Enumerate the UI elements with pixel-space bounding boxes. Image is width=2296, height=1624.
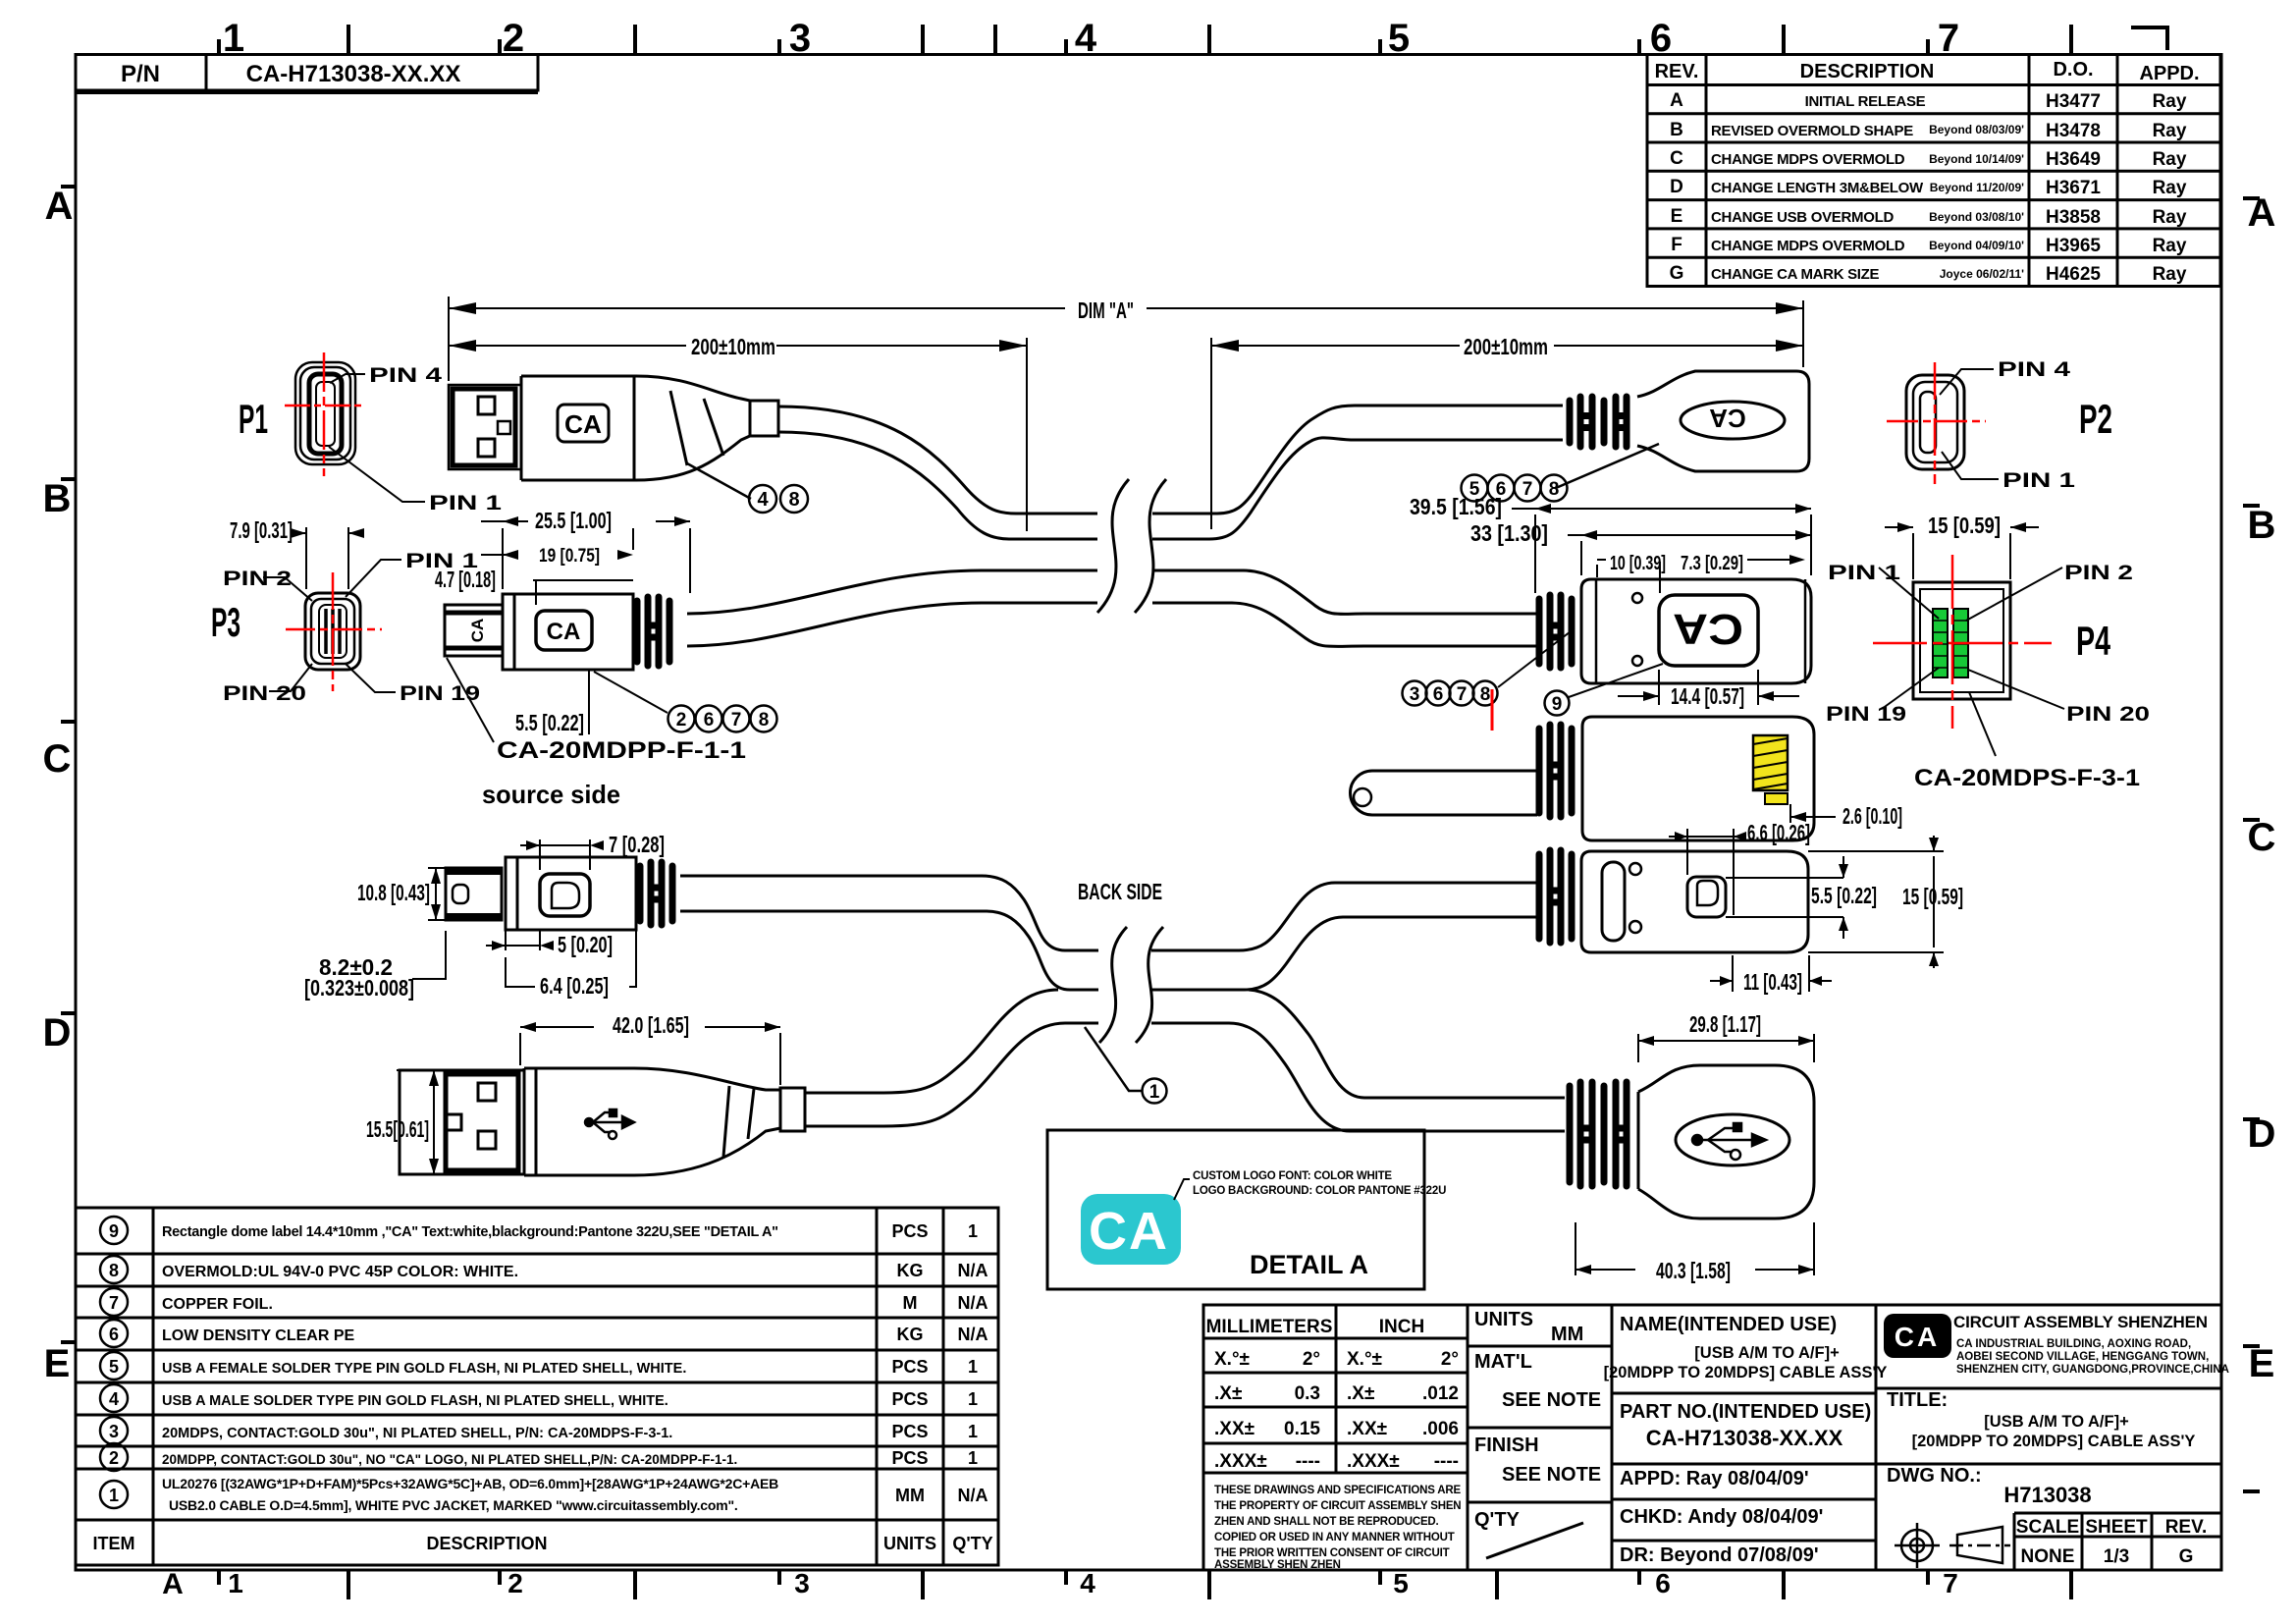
svg-text:7.3 [0.29]: 7.3 [0.29] xyxy=(1681,553,1743,574)
svg-text:4.7 [0.18]: 4.7 [0.18] xyxy=(435,567,496,592)
svg-text:Beyond 04/09/10': Beyond 04/09/10' xyxy=(1929,239,2024,252)
svg-text:N/A: N/A xyxy=(958,1293,988,1313)
svg-text:6: 6 xyxy=(1655,1568,1671,1598)
svg-text:DESCRIPTION: DESCRIPTION xyxy=(426,1534,547,1553)
svg-text:5.5 [0.22]: 5.5 [0.22] xyxy=(1811,883,1877,908)
svg-text:CA: CA xyxy=(547,619,581,645)
svg-text:15.5[0.61]: 15.5[0.61] xyxy=(366,1116,429,1142)
svg-text:1: 1 xyxy=(968,1448,978,1468)
svg-text:[0.323±0.008]: [0.323±0.008] xyxy=(304,975,414,1001)
svg-text:SEE NOTE: SEE NOTE xyxy=(1502,1389,1601,1411)
svg-text:PIN 1: PIN 1 xyxy=(2002,469,2075,492)
svg-text:SCALE: SCALE xyxy=(2016,1517,2079,1538)
svg-text:SHEET: SHEET xyxy=(2085,1517,2148,1538)
svg-text:7: 7 xyxy=(731,710,742,731)
svg-text:.XXX±: .XXX± xyxy=(1347,1451,1400,1472)
svg-text:2°: 2° xyxy=(1441,1349,1459,1370)
svg-text:PIN 4: PIN 4 xyxy=(369,364,442,387)
svg-text:N/A: N/A xyxy=(958,1325,988,1344)
svg-text:PIN 2: PIN 2 xyxy=(2064,562,2133,584)
svg-text:ZHEN AND SHALL NOT BE REPRODUC: ZHEN AND SHALL NOT BE REPRODUCED. xyxy=(1214,1516,1439,1528)
svg-text:Beyond 11/20/09': Beyond 11/20/09' xyxy=(1930,181,2024,194)
svg-text:INITIAL RELEASE: INITIAL RELEASE xyxy=(1805,93,1926,110)
svg-text:A: A xyxy=(2248,191,2276,235)
svg-text:COPIED OR USED IN ANY MANNER W: COPIED OR USED IN ANY MANNER WITHOUT xyxy=(1214,1532,1455,1543)
svg-text:2: 2 xyxy=(676,710,687,731)
svg-text:.X±: .X± xyxy=(1347,1383,1374,1404)
svg-text:F: F xyxy=(1671,235,1682,255)
svg-text:6: 6 xyxy=(704,710,715,731)
svg-text:11 [0.43]: 11 [0.43] xyxy=(1743,969,1802,995)
svg-text:4: 4 xyxy=(109,1389,119,1409)
svg-text:2°: 2° xyxy=(1303,1349,1320,1370)
svg-text:H3478: H3478 xyxy=(2046,121,2101,141)
svg-text:COPPER FOIL.: COPPER FOIL. xyxy=(162,1296,273,1313)
svg-text:Ray: Ray xyxy=(2153,149,2187,170)
svg-text:PIN 19: PIN 19 xyxy=(400,682,480,705)
svg-text:----: ---- xyxy=(1296,1451,1320,1472)
svg-text:CA-H713038-XX.XX: CA-H713038-XX.XX xyxy=(246,61,461,87)
svg-text:10 [0.39]: 10 [0.39] xyxy=(1610,553,1666,574)
svg-text:CHANGE MDPS OVERMOLD: CHANGE MDPS OVERMOLD xyxy=(1711,238,1905,254)
svg-text:1: 1 xyxy=(109,1486,119,1505)
svg-text:UNITS: UNITS xyxy=(883,1534,936,1553)
svg-text:CHKD: Andy 08/04/09': CHKD: Andy 08/04/09' xyxy=(1620,1506,1823,1528)
svg-text:UL20276 [(32AWG*1P+D+FAM)*5Pcs: UL20276 [(32AWG*1P+D+FAM)*5Pcs+32AWG*5C]… xyxy=(162,1476,778,1491)
svg-text:7: 7 xyxy=(1522,479,1533,500)
svg-text:H3649: H3649 xyxy=(2046,149,2101,170)
svg-text:ASSEMBLY SHEN ZHEN: ASSEMBLY SHEN ZHEN xyxy=(1214,1559,1341,1571)
svg-text:NAME(INTENDED USE): NAME(INTENDED USE) xyxy=(1620,1314,1837,1335)
svg-text:PIN 1: PIN 1 xyxy=(1828,562,1900,584)
svg-text:CA: CA xyxy=(1089,1202,1169,1261)
svg-text:D: D xyxy=(2248,1112,2276,1156)
svg-text:7: 7 xyxy=(109,1293,119,1313)
svg-text:E: E xyxy=(44,1342,71,1385)
svg-text:DR: Beyond 07/08/09': DR: Beyond 07/08/09' xyxy=(1620,1544,1819,1566)
svg-text:KG: KG xyxy=(897,1261,924,1280)
svg-text:6.6 [0.26]: 6.6 [0.26] xyxy=(1747,820,1810,845)
svg-text:LOGO BACKGROUND: COLOR PANTONE: LOGO BACKGROUND: COLOR PANTONE #322U xyxy=(1193,1185,1446,1197)
svg-text:CA: CA xyxy=(1673,605,1743,653)
svg-text:DESCRIPTION: DESCRIPTION xyxy=(1800,61,1935,82)
svg-text:200±10mm: 200±10mm xyxy=(691,334,775,359)
svg-text:4: 4 xyxy=(1080,1568,1095,1598)
svg-text:200±10mm: 200±10mm xyxy=(1464,334,1548,359)
svg-text:H4625: H4625 xyxy=(2046,264,2101,285)
svg-text:8: 8 xyxy=(788,489,799,511)
svg-text:N/A: N/A xyxy=(958,1261,988,1280)
svg-text:B: B xyxy=(2248,504,2276,547)
svg-text:5.5 [0.22]: 5.5 [0.22] xyxy=(515,710,584,735)
svg-text:PCS: PCS xyxy=(891,1389,928,1409)
svg-text:CA: CA xyxy=(468,619,487,643)
svg-text:DETAIL A: DETAIL A xyxy=(1250,1250,1368,1279)
svg-text:SEE NOTE: SEE NOTE xyxy=(1502,1464,1601,1486)
svg-text:E: E xyxy=(2249,1342,2275,1385)
svg-text:40.3 [1.58]: 40.3 [1.58] xyxy=(1656,1258,1731,1283)
svg-text:5: 5 xyxy=(1388,17,1410,60)
svg-text:PIN 20: PIN 20 xyxy=(223,682,306,705)
svg-text:[USB A/M TO A/F]+: [USB A/M TO A/F]+ xyxy=(1694,1344,1839,1362)
svg-text:PIN 20: PIN 20 xyxy=(2066,703,2150,726)
svg-text:[20MDPP TO 20MDPS] CABLE ASS'Y: [20MDPP TO 20MDPS] CABLE ASS'Y xyxy=(1604,1364,1888,1381)
svg-text:5 [0.20]: 5 [0.20] xyxy=(558,932,613,957)
svg-text:D.O.: D.O. xyxy=(2053,59,2093,81)
svg-text:B: B xyxy=(43,477,72,520)
svg-text:M: M xyxy=(903,1293,918,1313)
svg-text:H3671: H3671 xyxy=(2046,178,2101,198)
svg-text:E: E xyxy=(1671,206,1683,227)
svg-text:Beyond 10/14/09': Beyond 10/14/09' xyxy=(1929,152,2024,166)
svg-text:7: 7 xyxy=(1943,1568,1958,1598)
svg-text:USB A FEMALE SOLDER TYPE PIN G: USB A FEMALE SOLDER TYPE PIN GOLD FLASH,… xyxy=(162,1361,686,1377)
svg-text:0.3: 0.3 xyxy=(1295,1383,1320,1404)
svg-text:OVERMOLD:UL 94V-0 PVC 45P COLO: OVERMOLD:UL 94V-0 PVC 45P COLOR: WHITE. xyxy=(162,1264,518,1280)
svg-text:MILLIMETERS: MILLIMETERS xyxy=(1206,1317,1333,1337)
svg-text:D: D xyxy=(1670,177,1683,197)
svg-text:INCH: INCH xyxy=(1379,1317,1424,1337)
svg-text:PIN 4: PIN 4 xyxy=(1998,358,2070,381)
svg-text:1: 1 xyxy=(968,1389,978,1409)
svg-text:CA: CA xyxy=(1709,404,1746,433)
svg-text:1: 1 xyxy=(968,1422,978,1441)
svg-text:7.9 [0.31]: 7.9 [0.31] xyxy=(230,517,293,543)
svg-text:2.6 [0.10]: 2.6 [0.10] xyxy=(1842,803,1902,829)
svg-text:FINISH: FINISH xyxy=(1474,1435,1539,1456)
svg-text:Joyce 06/02/11': Joyce 06/02/11' xyxy=(1940,267,2024,281)
svg-text:PART NO.(INTENDED USE): PART NO.(INTENDED USE) xyxy=(1620,1401,1871,1423)
svg-text:CHANGE MDPS OVERMOLD: CHANGE MDPS OVERMOLD xyxy=(1711,151,1905,168)
svg-text:8: 8 xyxy=(759,710,770,731)
svg-text:1: 1 xyxy=(968,1357,978,1377)
svg-text:H713038: H713038 xyxy=(2003,1483,2091,1507)
svg-text:DWG NO.:: DWG NO.: xyxy=(1887,1465,1982,1487)
svg-text:39.5 [1.56]: 39.5 [1.56] xyxy=(1410,494,1502,519)
svg-text:25.5 [1.00]: 25.5 [1.00] xyxy=(535,508,612,533)
svg-text:THE PROPERTY OF CIRCUIT ASSEMB: THE PROPERTY OF CIRCUIT ASSEMBLY SHEN xyxy=(1214,1500,1461,1512)
svg-text:.XXX±: .XXX± xyxy=(1214,1451,1267,1472)
svg-text:PCS: PCS xyxy=(891,1221,928,1241)
svg-text:REV.: REV. xyxy=(2165,1517,2208,1538)
svg-text:D: D xyxy=(43,1011,72,1055)
svg-text:G: G xyxy=(2179,1546,2194,1567)
svg-text:REVISED OVERMOLD SHAPE: REVISED OVERMOLD SHAPE xyxy=(1711,123,1913,139)
svg-text:CA-20MDPS-F-3-1: CA-20MDPS-F-3-1 xyxy=(1914,765,2140,791)
svg-text:USB2.0 CABLE O.D=4.5mm], WHITE: USB2.0 CABLE O.D=4.5mm], WHITE PVC JACKE… xyxy=(169,1497,738,1513)
svg-text:10.8 [0.43]: 10.8 [0.43] xyxy=(357,880,430,905)
svg-text:CHANGE CA MARK SIZE: CHANGE CA MARK SIZE xyxy=(1711,266,1880,283)
svg-text:.X±: .X± xyxy=(1214,1383,1242,1404)
svg-text:H3965: H3965 xyxy=(2046,236,2101,256)
svg-text:B: B xyxy=(1670,120,1683,140)
svg-text:P3: P3 xyxy=(211,599,240,645)
svg-text:TITLE:: TITLE: xyxy=(1887,1389,1948,1411)
svg-text:NONE: NONE xyxy=(2021,1546,2075,1567)
svg-text:THE PRIOR WRITTEN CONSENT OF C: THE PRIOR WRITTEN CONSENT OF CIRCUIT xyxy=(1214,1547,1450,1559)
svg-text:CHANGE USB OVERMOLD: CHANGE USB OVERMOLD xyxy=(1711,209,1894,226)
svg-text:CA-20MDPP-F-1-1: CA-20MDPP-F-1-1 xyxy=(497,737,746,764)
svg-text:MM: MM xyxy=(895,1486,925,1505)
svg-text:2: 2 xyxy=(507,1568,523,1598)
svg-text:Ray: Ray xyxy=(2153,91,2187,112)
svg-text:----: ---- xyxy=(1434,1451,1459,1472)
svg-text:3: 3 xyxy=(789,17,811,60)
svg-text:C: C xyxy=(2248,816,2276,859)
svg-text:6: 6 xyxy=(1433,684,1444,705)
svg-text:15 [0.59]: 15 [0.59] xyxy=(1902,884,1963,909)
svg-text:1: 1 xyxy=(1149,1082,1160,1103)
svg-text:CA: CA xyxy=(1895,1322,1940,1352)
svg-text:DIM "A": DIM "A" xyxy=(1078,298,1134,323)
svg-text:9: 9 xyxy=(109,1221,119,1241)
svg-text:20MDPS, CONTACT:GOLD 30u", NI: 20MDPS, CONTACT:GOLD 30u", NI PLATED SHE… xyxy=(162,1426,672,1441)
svg-text:X.°±: X.°± xyxy=(1214,1349,1250,1370)
svg-text:Ray: Ray xyxy=(2153,236,2187,256)
svg-text:THESE DRAWINGS AND SPECIFICATI: THESE DRAWINGS AND SPECIFICATIONS ARE xyxy=(1214,1485,1461,1496)
svg-text:CA-H713038-XX.XX: CA-H713038-XX.XX xyxy=(1646,1426,1843,1450)
svg-text:.XX±: .XX± xyxy=(1214,1419,1255,1439)
svg-text:8: 8 xyxy=(1480,684,1491,705)
svg-text:PCS: PCS xyxy=(891,1448,928,1468)
svg-text:C: C xyxy=(1670,148,1683,169)
svg-text:A: A xyxy=(1670,90,1683,111)
svg-text:4: 4 xyxy=(1075,17,1097,60)
svg-text:Beyond 08/03/09': Beyond 08/03/09' xyxy=(1929,123,2024,136)
svg-text:G: G xyxy=(1670,263,1684,284)
svg-text:Ray: Ray xyxy=(2153,207,2187,228)
svg-text:3: 3 xyxy=(109,1422,119,1441)
svg-text:5: 5 xyxy=(109,1357,119,1377)
svg-text:.006: .006 xyxy=(1422,1419,1459,1439)
svg-text:Ray: Ray xyxy=(2153,121,2187,141)
svg-text:CHANGE LENGTH 3M&BELOW: CHANGE LENGTH 3M&BELOW xyxy=(1711,180,1924,196)
svg-text:Q'TY: Q'TY xyxy=(1474,1509,1521,1531)
svg-text:CA: CA xyxy=(564,409,602,439)
svg-text:29.8 [1.17]: 29.8 [1.17] xyxy=(1689,1011,1761,1037)
svg-text:H3858: H3858 xyxy=(2046,207,2101,228)
svg-text:A: A xyxy=(45,185,74,228)
svg-text:[20MDPP TO 20MDPS] CABLE ASS'Y: [20MDPP TO 20MDPS] CABLE ASS'Y xyxy=(1912,1433,2196,1450)
svg-text:MM: MM xyxy=(1551,1324,1583,1345)
svg-text:[USB A/M TO A/F]+: [USB A/M TO A/F]+ xyxy=(1984,1413,2128,1431)
svg-text:3: 3 xyxy=(794,1568,810,1598)
svg-text:6.4 [0.25]: 6.4 [0.25] xyxy=(540,973,609,999)
svg-text:1: 1 xyxy=(968,1221,978,1241)
svg-text:8: 8 xyxy=(109,1261,119,1280)
svg-text:PIN 1: PIN 1 xyxy=(429,492,502,514)
svg-text:UNITS: UNITS xyxy=(1474,1309,1533,1330)
svg-text:USB A MALE SOLDER TYPE PIN GOL: USB A MALE SOLDER TYPE PIN GOLD FLASH, N… xyxy=(162,1393,668,1409)
svg-text:6: 6 xyxy=(109,1325,119,1344)
svg-text:PIN 2: PIN 2 xyxy=(223,568,292,590)
svg-text:2: 2 xyxy=(109,1448,119,1468)
svg-text:CA INDUSTRIAL BUILDING, AOXING: CA INDUSTRIAL BUILDING, AOXING ROAD, xyxy=(1956,1338,2191,1350)
svg-text:P2: P2 xyxy=(2079,396,2112,442)
svg-text:7 [0.28]: 7 [0.28] xyxy=(609,832,665,857)
svg-text:Q'TY: Q'TY xyxy=(952,1534,992,1553)
svg-text:LOW DENSITY CLEAR PE: LOW DENSITY CLEAR PE xyxy=(162,1327,354,1344)
svg-text:SHENZHEN CITY, GUANGDONG,PROVI: SHENZHEN CITY, GUANGDONG,PROVINCE,CHINA xyxy=(1956,1364,2229,1376)
svg-text:X.°±: X.°± xyxy=(1347,1349,1382,1370)
svg-text:ITEM: ITEM xyxy=(93,1534,135,1553)
svg-text:3: 3 xyxy=(1410,684,1420,705)
svg-text:BACK SIDE: BACK SIDE xyxy=(1078,879,1162,904)
svg-text:H3477: H3477 xyxy=(2046,91,2101,112)
svg-text:4: 4 xyxy=(757,489,769,511)
svg-text:P/N: P/N xyxy=(121,61,160,87)
svg-text:P4: P4 xyxy=(2076,618,2110,664)
svg-text:source side: source side xyxy=(482,780,620,809)
svg-text:Rectangle dome label 14.4*10mm: Rectangle dome label 14.4*10mm ,"CA" Tex… xyxy=(162,1224,778,1240)
svg-text:CUSTOM LOGO FONT: COLOR WHITE: CUSTOM LOGO FONT: COLOR WHITE xyxy=(1193,1170,1392,1182)
svg-text:Ray: Ray xyxy=(2153,178,2187,198)
svg-text:20MDPP, CONTACT:GOLD 30u", NO: 20MDPP, CONTACT:GOLD 30u", NO "CA" LOGO,… xyxy=(162,1452,737,1467)
svg-text:.XX±: .XX± xyxy=(1347,1419,1387,1439)
svg-text:KG: KG xyxy=(897,1325,924,1344)
svg-text:REV.: REV. xyxy=(1655,61,1699,82)
svg-text:42.0 [1.65]: 42.0 [1.65] xyxy=(613,1012,689,1038)
svg-text:1: 1 xyxy=(228,1568,243,1598)
svg-text:.012: .012 xyxy=(1422,1383,1459,1404)
svg-text:1/3: 1/3 xyxy=(2104,1546,2129,1567)
svg-text:5: 5 xyxy=(1393,1568,1409,1598)
svg-text:C: C xyxy=(43,737,72,781)
svg-text:Ray: Ray xyxy=(2153,264,2187,285)
svg-text:9: 9 xyxy=(1552,694,1563,715)
svg-text:8: 8 xyxy=(1549,479,1560,500)
svg-text:A: A xyxy=(162,1568,184,1600)
svg-text:CIRCUIT ASSEMBLY SHENZHEN: CIRCUIT ASSEMBLY SHENZHEN xyxy=(1953,1313,2208,1331)
svg-text:PCS: PCS xyxy=(891,1422,928,1441)
svg-text:APPD.: APPD. xyxy=(2139,63,2199,84)
svg-text:15 [0.59]: 15 [0.59] xyxy=(1928,513,2001,538)
svg-text:PIN 19: PIN 19 xyxy=(1826,703,1906,726)
svg-text:7: 7 xyxy=(1457,684,1468,705)
svg-text:14.4 [0.57]: 14.4 [0.57] xyxy=(1671,683,1744,709)
svg-text:APPD: Ray 08/04/09': APPD: Ray 08/04/09' xyxy=(1620,1468,1809,1489)
svg-text:0.15: 0.15 xyxy=(1284,1419,1320,1439)
svg-text:33 [1.30]: 33 [1.30] xyxy=(1470,520,1548,546)
svg-text:AOBEI SECOND VILLAGE, HENGGANG: AOBEI SECOND VILLAGE, HENGGANG TOWN, xyxy=(1956,1351,2209,1363)
svg-text:MAT'L: MAT'L xyxy=(1474,1351,1532,1373)
svg-text:P1: P1 xyxy=(239,396,268,442)
svg-text:N/A: N/A xyxy=(958,1486,988,1505)
svg-text:PCS: PCS xyxy=(891,1357,928,1377)
svg-text:Beyond 03/08/10': Beyond 03/08/10' xyxy=(1929,210,2024,224)
svg-text:19 [0.75]: 19 [0.75] xyxy=(539,546,600,567)
